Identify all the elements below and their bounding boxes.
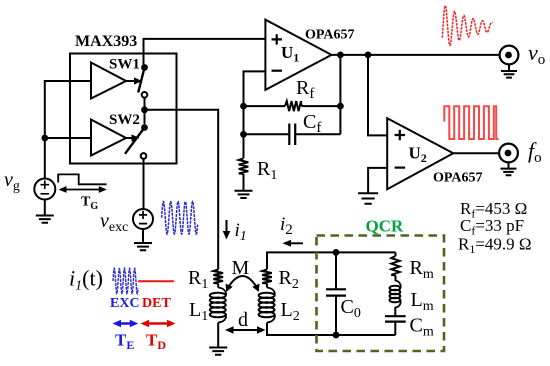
node Rf left xyxy=(240,103,247,110)
node C0 top xyxy=(333,249,340,256)
arrow TD span (red) xyxy=(145,322,171,324)
svg-text:DET: DET xyxy=(142,296,171,311)
wire branch to SW2 input xyxy=(45,137,91,139)
node SW1 top terminal xyxy=(141,64,148,71)
connector fo xyxy=(499,144,518,163)
box QCR (dashed) xyxy=(317,236,445,352)
waveform i1 detection line (red) xyxy=(138,280,174,282)
wire SW2 buffer to switch arrow xyxy=(126,137,136,139)
ground vexc xyxy=(134,243,152,250)
connector vo xyxy=(500,46,519,65)
source vg xyxy=(34,179,55,200)
inductor L2 xyxy=(267,288,275,297)
waveform gate pulse xyxy=(58,174,106,184)
switch SW1 blade xyxy=(138,68,144,93)
wire U2 - input to ground xyxy=(368,168,387,193)
node SW2 bottom terminal (open) xyxy=(141,153,147,159)
waveform i1 excitation burst (blue) xyxy=(113,268,138,293)
arrow d span xyxy=(230,329,261,331)
arrow mutual coupling arc xyxy=(228,276,258,289)
inductor Lm xyxy=(395,276,397,282)
svg-text:QCR: QCR xyxy=(366,217,405,236)
node U2 branch junction xyxy=(365,52,372,59)
svg-text:OPA657: OPA657 xyxy=(433,171,483,186)
inductor L1 xyxy=(218,288,226,297)
IC MAX393 box xyxy=(70,54,177,164)
buffer SW2 xyxy=(91,120,126,156)
waveform vexc sine (blue) xyxy=(162,202,198,235)
wire switch common to transformer primary xyxy=(145,110,219,270)
ground U2 xyxy=(358,193,378,203)
wire SW1 buffer to switch arrow xyxy=(126,80,136,82)
wire R1 to ground xyxy=(243,174,245,191)
wire U2 output xyxy=(453,152,499,154)
wire vg to ground xyxy=(44,200,46,216)
svg-text:d: d xyxy=(238,309,248,331)
arrow i2 current xyxy=(288,242,303,244)
svg-text:OPA657: OPA657 xyxy=(305,28,355,43)
svg-text:R1=49.9 Ω: R1=49.9 Ω xyxy=(458,235,532,257)
wire U1 - input to feedback xyxy=(244,71,266,158)
node switch common output xyxy=(141,106,148,113)
resistor Rm xyxy=(395,252,397,256)
wire U1 output xyxy=(332,54,500,56)
buffer SW1 xyxy=(91,63,126,99)
wire feedback right vertical xyxy=(339,55,341,134)
resistor R1 (input) xyxy=(239,158,249,174)
wire R1 to L1 xyxy=(217,284,219,288)
capacitor C0 xyxy=(335,252,337,335)
switch SW2 blade xyxy=(125,128,145,154)
ground L1 xyxy=(209,348,227,355)
node SW2 top terminal xyxy=(141,124,148,131)
resistor Rf xyxy=(244,105,286,107)
arrow TG span xyxy=(63,189,103,191)
svg-text:i1(t): i1(t) xyxy=(69,266,103,294)
svg-text:SW1: SW1 xyxy=(109,57,140,73)
node Cf left xyxy=(240,131,247,138)
waveform vo damped sine (red) xyxy=(442,6,492,46)
ground R1 xyxy=(235,191,253,198)
wire R2 to L2 xyxy=(266,284,268,288)
resistor R1 primary xyxy=(213,270,223,284)
ground vg xyxy=(36,216,54,223)
resistor R2 xyxy=(262,270,272,284)
svg-text:MAX393: MAX393 xyxy=(75,33,137,50)
capacitor Cm xyxy=(394,307,396,335)
node Rf right xyxy=(337,103,344,110)
op-amp U1 xyxy=(265,20,331,90)
op-amp U2 xyxy=(387,118,453,189)
node SW1 bottom terminal (open) xyxy=(142,92,148,98)
arrow TE span (blue) xyxy=(117,322,134,324)
node feedback right junction xyxy=(337,52,344,59)
wire SW1 terminal to U1 + input xyxy=(144,39,266,68)
source vexc xyxy=(133,209,153,229)
svg-text:EXC: EXC xyxy=(110,296,140,311)
wire SW2 open terminal to vexc xyxy=(143,159,145,209)
wire vg to SW1 input xyxy=(45,81,91,179)
wire secondary top xyxy=(267,252,396,269)
wire U1 out to U2 + input xyxy=(368,55,387,135)
svg-text:SW2: SW2 xyxy=(109,112,140,128)
node input branch junction xyxy=(41,135,48,142)
waveform fo square wave (red) xyxy=(444,106,498,139)
wire SW1 bottom to SW2 top xyxy=(144,98,146,125)
node C0 bottom xyxy=(333,332,340,339)
wire vexc to ground xyxy=(142,229,144,243)
capacitor Cf xyxy=(244,133,341,135)
arrow i1 current xyxy=(226,220,228,234)
wire secondary bottom xyxy=(267,323,396,336)
wire L1 to ground xyxy=(217,323,219,348)
